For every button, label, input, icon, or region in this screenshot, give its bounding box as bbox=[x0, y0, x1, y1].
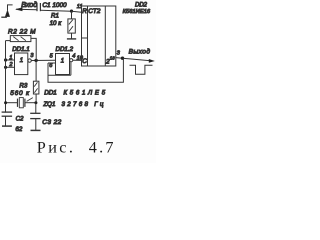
node B junction bbox=[34, 59, 37, 62]
leader line to ZQ1 label bbox=[27, 98, 33, 102]
svg-text:C: C bbox=[82, 58, 87, 65]
resistor R2 bbox=[6, 36, 37, 61]
svg-text:62: 62 bbox=[15, 126, 22, 133]
wire DD1.2 out to DD2 pin 10 bbox=[73, 59, 82, 61]
junction dot crystal left bbox=[4, 101, 7, 104]
svg-text:DD1.2: DD1.2 bbox=[56, 46, 74, 53]
junction dot crystal right node bbox=[34, 101, 37, 104]
svg-text:Выход: Выход bbox=[129, 48, 151, 56]
svg-text:1: 1 bbox=[9, 55, 12, 61]
svg-text:Вход: Вход bbox=[21, 0, 37, 9]
svg-text:R1: R1 bbox=[51, 12, 59, 19]
wire DD2 pin 3 output bbox=[116, 58, 151, 61]
ground under C3 bbox=[31, 129, 41, 131]
svg-text:1: 1 bbox=[20, 58, 23, 64]
capacitor C1 bbox=[37, 3, 40, 11]
svg-text:6: 6 bbox=[49, 63, 53, 69]
svg-text:CT2: CT2 bbox=[88, 8, 101, 15]
svg-text:3: 3 bbox=[30, 53, 34, 59]
op IC DD2 counter box bbox=[82, 6, 116, 66]
wire node A to DD2 pin 11 bbox=[72, 11, 82, 12]
output arrow bbox=[149, 59, 155, 63]
wire DD1.2 output stub down bbox=[70, 62, 72, 75]
pin 6 wire bbox=[48, 62, 56, 64]
pin 1 wire bbox=[6, 59, 15, 61]
resistor R1 bbox=[68, 11, 75, 38]
ground under C2 bbox=[2, 125, 12, 127]
wire under DD1.2 bbox=[48, 74, 71, 76]
logic gate DD1.1 bbox=[15, 53, 32, 75]
svg-text:DD1: DD1 bbox=[44, 90, 57, 97]
pin 2 wire bbox=[6, 66, 15, 68]
capacitor C3 bbox=[30, 103, 40, 130]
wire feedback output to DD1.2 pin 6 bbox=[48, 58, 123, 82]
svg-text:DD1.1: DD1.1 bbox=[12, 46, 30, 53]
svg-text:13: 13 bbox=[110, 55, 116, 60]
crystal ZQ1 bbox=[6, 98, 36, 108]
junction dot pin 2 bbox=[4, 66, 7, 69]
svg-text:10: 10 bbox=[77, 56, 84, 62]
svg-text:10 к: 10 к bbox=[50, 20, 63, 27]
svg-text:К561ИЕ16: К561ИЕ16 bbox=[123, 9, 151, 15]
input terminal XS1 bbox=[1, 5, 12, 17]
svg-text:C2: C2 bbox=[16, 116, 24, 123]
svg-text:4.7: 4.7 bbox=[89, 139, 116, 157]
svg-text:ZQ1: ZQ1 bbox=[42, 101, 55, 108]
left bus wire bbox=[5, 41, 7, 113]
svg-text:С1 1000: С1 1000 bbox=[42, 2, 67, 9]
svg-text:R3: R3 bbox=[19, 82, 27, 89]
svg-text:3: 3 bbox=[117, 50, 121, 56]
svg-text:5: 5 bbox=[50, 53, 54, 59]
logic gate DD1.2 bbox=[56, 54, 73, 75]
waveform meander symbol bbox=[130, 65, 153, 74]
svg-text:560 к: 560 к bbox=[10, 90, 30, 97]
capacitor C2 bbox=[2, 112, 13, 125]
svg-text:С3 22: С3 22 bbox=[42, 119, 61, 126]
resistor R3 bbox=[33, 60, 39, 102]
svg-text:R: R bbox=[82, 8, 87, 15]
svg-text:DD2: DD2 bbox=[135, 3, 148, 9]
svg-text:К561ЛЕ5: К561ЛЕ5 bbox=[64, 90, 108, 97]
junction dot pin 1 bbox=[4, 58, 7, 61]
ground under R1 bbox=[67, 38, 76, 40]
svg-text:4: 4 bbox=[72, 54, 75, 60]
node C junction on output bbox=[121, 57, 124, 60]
svg-text:R2 22 М: R2 22 М bbox=[8, 29, 36, 36]
node A junction bbox=[70, 10, 73, 13]
wire input to C1 with direction arrow bbox=[16, 8, 37, 11]
wire DD1.1 out to DD1.2 in bbox=[31, 59, 55, 61]
svg-text:Рис.: Рис. bbox=[37, 139, 76, 157]
svg-text:1: 1 bbox=[61, 58, 64, 64]
wire C1 to node A bbox=[40, 10, 71, 11]
svg-text:32768 Гц: 32768 Гц bbox=[62, 101, 106, 108]
